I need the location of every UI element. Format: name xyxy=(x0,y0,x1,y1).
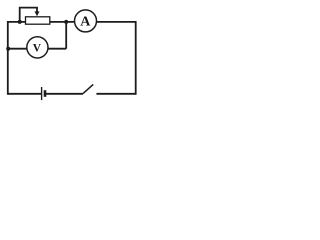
ammeter U1 circle xyxy=(75,10,97,32)
svg-text:V: V xyxy=(33,42,42,54)
wire ammeter to right rail xyxy=(97,21,137,23)
wire voltmeter branch right xyxy=(48,48,66,50)
wire resistor to ammeter xyxy=(50,21,75,23)
wire right rail xyxy=(135,21,137,95)
node junction of voltmeter branch (top) xyxy=(64,20,68,24)
wire top-left: resistor left terminal to left rail xyxy=(8,21,26,23)
battery B1 short thick plate xyxy=(44,90,47,97)
resistor R1 (rheostat body) xyxy=(26,17,50,24)
svg-text:A: A xyxy=(80,15,91,30)
wire left rail xyxy=(7,21,9,95)
wire voltmeter branch vertical up xyxy=(65,22,67,49)
node junction of rheostat slider tap xyxy=(18,20,22,24)
rheostat slider arrow head xyxy=(35,11,40,16)
wire rheostat slider loop xyxy=(20,8,37,22)
battery B1 long plate xyxy=(41,87,43,100)
wire bottom-left: rail to battery xyxy=(8,93,42,95)
voltmeter U2 circle xyxy=(27,37,48,58)
wire bottom-right: rail to switch xyxy=(96,93,135,95)
node junction of voltmeter branch (left rail) xyxy=(6,47,10,51)
wire voltmeter branch left xyxy=(8,48,27,50)
wire switch to battery xyxy=(46,93,83,95)
switch S1 lever (open) xyxy=(83,84,93,93)
